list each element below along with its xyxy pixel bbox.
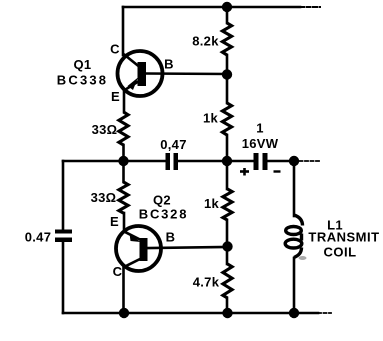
svg-text:C: C bbox=[110, 42, 120, 57]
svg-text:0,47: 0,47 bbox=[160, 137, 187, 152]
svg-text:B: B bbox=[166, 230, 176, 245]
svg-text:1: 1 bbox=[256, 121, 264, 136]
svg-text:1k: 1k bbox=[204, 196, 220, 211]
svg-text:E: E bbox=[111, 89, 120, 104]
svg-text:BC338: BC338 bbox=[57, 73, 108, 88]
svg-text:16VW: 16VW bbox=[242, 136, 279, 151]
svg-text:8.2k: 8.2k bbox=[192, 34, 219, 49]
svg-text:Q1: Q1 bbox=[74, 57, 92, 72]
svg-text:C: C bbox=[113, 264, 123, 279]
svg-text:4.7k: 4.7k bbox=[193, 275, 220, 290]
svg-text:33Ω: 33Ω bbox=[92, 122, 118, 137]
svg-text:COIL: COIL bbox=[323, 245, 356, 260]
svg-text:TRANSMIT: TRANSMIT bbox=[308, 230, 379, 245]
svg-text:33Ω: 33Ω bbox=[91, 190, 117, 205]
svg-text:BC328: BC328 bbox=[139, 207, 188, 222]
svg-text:1k: 1k bbox=[203, 111, 219, 126]
svg-text:Q2: Q2 bbox=[153, 193, 171, 208]
svg-text:0.47: 0.47 bbox=[25, 230, 52, 245]
svg-text:E: E bbox=[110, 214, 119, 229]
svg-text:B: B bbox=[164, 57, 174, 72]
